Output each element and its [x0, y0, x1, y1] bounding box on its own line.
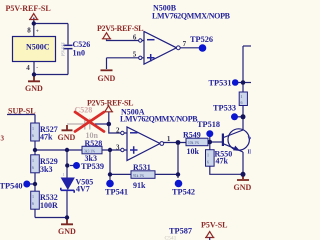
svg-text:+: + — [36, 29, 39, 35]
svg-text:-: - — [36, 65, 38, 71]
svg-text:5: 5 — [133, 51, 137, 59]
svg-text:6: 6 — [32, 165, 34, 170]
svg-text:6: 6 — [32, 201, 34, 206]
svg-text:3k3 1%: 3k3 1% — [84, 149, 95, 153]
svg-text:TP542: TP542 — [172, 188, 195, 197]
svg-text:1: 1 — [32, 158, 34, 163]
svg-text:1n0: 1n0 — [73, 49, 85, 58]
svg-text:4: 4 — [26, 64, 30, 72]
svg-text:1: 1 — [32, 126, 34, 131]
svg-text:1: 1 — [32, 194, 34, 199]
svg-text:4V7: 4V7 — [76, 184, 90, 193]
svg-text:91k 1%: 91k 1% — [133, 174, 144, 178]
svg-text:C541: C541 — [165, 236, 177, 240]
svg-text:P5V-REF: P5V-REF — [62, 42, 66, 56]
svg-text:47k: 47k — [40, 132, 53, 141]
svg-text:1: 1 — [241, 94, 243, 99]
svg-text:C526: C526 — [73, 40, 91, 49]
svg-text:TP533: TP533 — [213, 104, 236, 113]
svg-text:6: 6 — [32, 133, 34, 138]
svg-text:3: 3 — [116, 143, 120, 151]
svg-text:TP587: TP587 — [169, 226, 192, 235]
svg-text:GND: GND — [98, 74, 116, 83]
svg-text:TP539: TP539 — [81, 162, 104, 171]
svg-text:P5V-SL: P5V-SL — [201, 220, 228, 229]
svg-text:6: 6 — [207, 160, 209, 165]
svg-text:LMV762QMMX/NOPB: LMV762QMMX/NOPB — [120, 115, 198, 124]
svg-text:W: W — [248, 137, 252, 143]
svg-text:100R: 100R — [40, 201, 58, 210]
svg-text:91k: 91k — [133, 181, 146, 190]
svg-text:2: 2 — [116, 126, 120, 134]
svg-text:GND: GND — [58, 133, 76, 142]
svg-text:P2V5-REF-SL: P2V5-REF-SL — [97, 24, 143, 33]
svg-text:P2V5-REF-SL: P2V5-REF-SL — [87, 98, 133, 107]
svg-text:1: 1 — [63, 172, 65, 177]
svg-text:47k: 47k — [216, 156, 229, 165]
svg-text:TP526: TP526 — [190, 35, 213, 44]
svg-text:GND: GND — [234, 183, 252, 192]
svg-text:10k 1%: 10k 1% — [188, 141, 199, 145]
svg-text:1: 1 — [207, 153, 209, 158]
svg-text:TP531: TP531 — [209, 78, 232, 87]
svg-text:3: 3 — [1, 135, 5, 143]
svg-text:GND: GND — [58, 227, 76, 236]
svg-text:1: 1 — [167, 135, 171, 143]
svg-text:N500C: N500C — [26, 43, 50, 52]
svg-text:TP518: TP518 — [197, 120, 220, 129]
svg-text:TP540: TP540 — [0, 181, 23, 190]
svg-text:LMV762QMMX/NOPB: LMV762QMMX/NOPB — [152, 11, 231, 20]
svg-text:6: 6 — [241, 100, 243, 105]
svg-text:3k3: 3k3 — [40, 165, 52, 174]
svg-text:TP541: TP541 — [105, 188, 128, 197]
svg-text:SUP-SL: SUP-SL — [8, 106, 36, 115]
svg-text:8: 8 — [27, 26, 31, 34]
svg-text:7: 7 — [183, 40, 187, 48]
svg-text:R528: R528 — [85, 139, 103, 148]
svg-text:GND: GND — [25, 84, 43, 93]
svg-text:6: 6 — [133, 34, 137, 42]
svg-text:10k: 10k — [187, 147, 200, 156]
svg-text:II: II — [248, 150, 252, 156]
svg-text:R531: R531 — [133, 163, 151, 172]
svg-text:R549: R549 — [183, 130, 201, 139]
svg-text:P5V-REF-SL: P5V-REF-SL — [6, 4, 51, 13]
